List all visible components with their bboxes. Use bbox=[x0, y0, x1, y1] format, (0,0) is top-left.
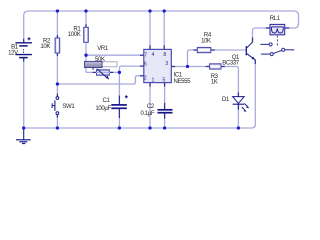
junction dot top rail R1 bbox=[84, 9, 87, 12]
svg-text:D1: D1 bbox=[222, 97, 230, 103]
svg-text:5: 5 bbox=[163, 78, 166, 84]
svg-text:NE555: NE555 bbox=[174, 79, 192, 85]
junction dot pin7/R1/VR1 bbox=[84, 54, 87, 57]
junction dot trigger node bbox=[56, 82, 59, 85]
resistor R2 bbox=[55, 38, 60, 53]
junction dot bottom battery bbox=[22, 126, 25, 129]
resistor R3 bbox=[210, 64, 221, 69]
svg-text:VR1: VR1 bbox=[97, 46, 109, 52]
svg-text:C2: C2 bbox=[147, 104, 155, 110]
svg-text:R4: R4 bbox=[204, 33, 212, 39]
wire pin8 column bbox=[163, 11, 165, 49]
switch SW1 bbox=[56, 97, 59, 100]
wire Q1 collector riser to relay coil bbox=[253, 28, 271, 42]
wire bottom rail with ground and emitter riser bbox=[24, 58, 256, 128]
svg-text:C1: C1 bbox=[103, 98, 111, 104]
battery B1 bbox=[15, 37, 32, 57]
wire pin7 row bbox=[86, 54, 144, 56]
VR1 body bbox=[97, 70, 110, 75]
junction dot bottom pin1 bbox=[148, 126, 151, 129]
ground bbox=[23, 128, 25, 140]
VR1 arrow bbox=[96, 71, 110, 73]
svg-text:6: 6 bbox=[144, 62, 147, 68]
svg-text:0.1µF: 0.1µF bbox=[140, 111, 154, 117]
wire R2/SW1 column bbox=[56, 11, 58, 128]
relay dashed link bbox=[276, 35, 278, 47]
battery cell dots bbox=[23, 49, 24, 50]
junction dot bottom C1 bbox=[118, 126, 121, 129]
capacitor C2 bbox=[158, 109, 173, 111]
svg-text:2: 2 bbox=[144, 76, 147, 82]
LED D1 bbox=[233, 97, 245, 104]
junction dot wiper node bbox=[118, 71, 121, 74]
svg-text:SW1: SW1 bbox=[62, 104, 75, 110]
wire D1 to bottom rail bbox=[237, 105, 239, 128]
VR1 slider knob bbox=[85, 61, 103, 67]
wire pin4 column bbox=[149, 11, 151, 49]
IC1 NE555 body bbox=[144, 49, 172, 82]
wire R4 to Q1 base bbox=[211, 49, 246, 51]
relay pole lever bbox=[273, 50, 282, 53]
wire pin6 to wiper node bbox=[119, 66, 143, 72]
junction dot bottom SW1 bbox=[56, 126, 59, 129]
resistor R1 bbox=[84, 27, 89, 42]
svg-text:BC337: BC337 bbox=[222, 61, 240, 67]
svg-text:7: 7 bbox=[144, 53, 147, 59]
svg-text:12V: 12V bbox=[8, 51, 18, 57]
svg-text:10K: 10K bbox=[40, 44, 50, 50]
svg-text:100µF: 100µF bbox=[95, 106, 111, 112]
wire pin3 row to R3 and down to D1 bbox=[171, 67, 238, 97]
wire pin1 column bbox=[149, 83, 151, 128]
svg-text:4: 4 bbox=[152, 52, 155, 58]
VR1 slider track bbox=[102, 62, 117, 67]
svg-text:IC1: IC1 bbox=[174, 72, 183, 78]
wire R4 branch from pin3 node bbox=[188, 50, 198, 67]
wire pin2 step to trigger node bbox=[57, 76, 143, 84]
relay contact lower throw bbox=[261, 53, 270, 55]
relay contact upper throw bbox=[260, 43, 269, 45]
svg-text:1K: 1K bbox=[211, 80, 218, 86]
svg-text:10K: 10K bbox=[201, 39, 211, 45]
junction dot bottom D1 bbox=[237, 126, 240, 129]
junction dot bottom C2 bbox=[163, 126, 166, 129]
wire C1 column bbox=[118, 72, 120, 128]
junction dot top rail pin4 bbox=[148, 9, 151, 12]
svg-text:RL1: RL1 bbox=[270, 16, 281, 22]
junction dot top rail pin8 bbox=[163, 9, 166, 12]
relay RL1 coil bbox=[270, 24, 285, 34]
svg-text:1: 1 bbox=[151, 78, 154, 84]
svg-text:8: 8 bbox=[163, 52, 166, 58]
capacitor C1 bbox=[111, 104, 127, 106]
svg-text:3: 3 bbox=[165, 61, 168, 67]
transistor Q1 bbox=[245, 46, 247, 55]
wire pin5/C2 column bbox=[164, 83, 166, 128]
dark component pin stubs bbox=[24, 24, 290, 119]
junction dot pin3 node bbox=[186, 65, 189, 68]
wire R1 column bbox=[85, 11, 87, 72]
junction dot top rail R2 bbox=[56, 9, 59, 12]
wire VR1 wiper row bbox=[86, 71, 119, 73]
svg-text:100K: 100K bbox=[68, 32, 81, 38]
resistor R4 bbox=[197, 47, 211, 52]
wire top rail from battery to relay bbox=[24, 11, 299, 42]
